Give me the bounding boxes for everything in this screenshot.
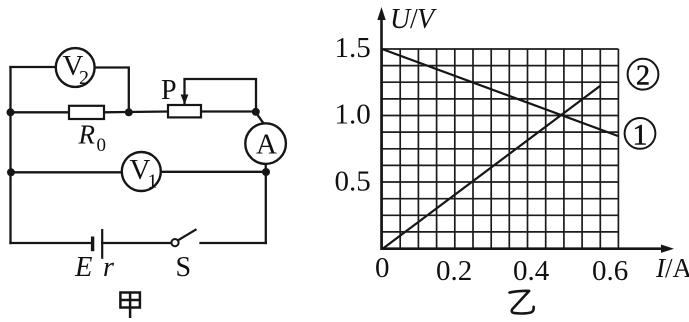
- svg-text:r: r: [103, 252, 114, 283]
- axis Y U/V: [377, 4, 437, 250]
- node dot right R0: [125, 108, 133, 116]
- svg-text:0.6: 0.6: [592, 255, 628, 287]
- svg-text:1: 1: [148, 171, 158, 193]
- svg-text:1.5: 1.5: [335, 32, 371, 64]
- wire V1 line left: [11, 171, 122, 173]
- svg-text:1: 1: [633, 119, 648, 152]
- wire ammeter to V1 node: [264, 164, 267, 173]
- line 2 ascending U=2I: [383, 86, 600, 249]
- node dot left R0: [7, 108, 15, 116]
- voltmeter V2: [56, 48, 95, 89]
- wire rheostat to node: [201, 110, 256, 112]
- svg-text:0: 0: [375, 252, 390, 284]
- wire V1 line right: [161, 171, 266, 173]
- label circled 1: [625, 118, 656, 152]
- svg-text:P: P: [161, 75, 177, 106]
- wire bottom left: [11, 242, 93, 244]
- svg-text:0: 0: [97, 135, 107, 156]
- svg-text:R: R: [78, 120, 96, 150]
- svg-text:V: V: [417, 4, 437, 35]
- wire wiper top link: [185, 79, 257, 112]
- svg-text:A: A: [256, 129, 277, 161]
- wire left rail: [9, 67, 11, 243]
- node dot rheostat-ammeter: [252, 108, 260, 116]
- axis X I/A: [382, 245, 689, 284]
- rheostat P: [161, 75, 201, 117]
- svg-text:2: 2: [79, 67, 89, 89]
- svg-text:0.5: 0.5: [335, 166, 371, 198]
- wire right rail: [265, 173, 267, 244]
- label circled 2: [628, 59, 659, 92]
- svg-text:1.0: 1.0: [335, 99, 371, 131]
- svg-text:0.4: 0.4: [513, 255, 550, 287]
- wire V2 top-left: [11, 66, 56, 68]
- svg-text:E: E: [74, 252, 92, 283]
- wire V2 top-right: [95, 68, 129, 113]
- label yi (乙) drawn as strokes: [510, 291, 534, 314]
- grid: [382, 49, 618, 249]
- label jia (甲) drawn as strokes: [120, 293, 139, 319]
- battery E r: [74, 229, 114, 283]
- resistor R0: [69, 106, 106, 156]
- switch S: [171, 229, 196, 283]
- svg-text:/A: /A: [665, 253, 689, 283]
- wire R0 line left: [11, 111, 70, 113]
- svg-text:2: 2: [636, 61, 650, 92]
- svg-text:0.2: 0.2: [436, 255, 472, 287]
- line 1 descending U=1.5-I: [382, 49, 618, 136]
- node dot left V1: [7, 168, 15, 176]
- wire R0 to rheostat: [104, 110, 168, 113]
- svg-text:S: S: [176, 252, 192, 283]
- svg-text:U: U: [390, 4, 412, 35]
- node dot right V1: [262, 168, 270, 176]
- wire node to ammeter: [256, 112, 265, 124]
- wire battery to switch: [102, 242, 171, 244]
- wire switch to right: [201, 242, 266, 244]
- voltmeter V1: [122, 152, 161, 193]
- ammeter A: [245, 123, 286, 164]
